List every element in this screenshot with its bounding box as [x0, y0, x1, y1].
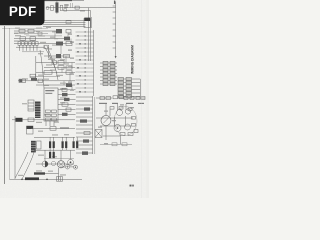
connector block CB2 (hatched): [31, 141, 41, 153]
splice pair column: [100, 61, 117, 85]
capacitor pair C3: [49, 152, 55, 159]
wire: vertical bus B: [90, 11, 92, 61]
wire row 5: [44, 54, 70, 58]
wire row 4: [22, 51, 44, 53]
cap link wires: [45, 137, 77, 161]
lamp L3: [51, 161, 55, 165]
wire: secondary feed: [63, 10, 91, 12]
wire row 3: [14, 37, 70, 41]
wire labels (illegible): [14, 27, 69, 176]
harness trunk wire: [30, 47, 62, 81]
battery B1: [57, 177, 63, 182]
wire bundle under badge: [43, 3, 86, 26]
connector J1: [84, 17, 91, 28]
right splice group: [118, 78, 140, 99]
terminal ladder lower: [76, 97, 93, 155]
U1 drop wires: [46, 121, 54, 126]
page number: [130, 185, 134, 187]
terminal ladder upper: [76, 31, 94, 93]
wire row 18: [34, 136, 75, 138]
gauge G4: [114, 125, 121, 132]
relay K2 (box with X): [95, 130, 102, 138]
aux lamp pair: [60, 165, 78, 170]
wire row 1: [14, 29, 71, 33]
control unit U1: [44, 88, 58, 121]
scan edge shading: [141, 0, 149, 198]
switch pair group A: [96, 97, 112, 105]
svg-text:WIRING DIAGRAM: WIRING DIAGRAM: [130, 45, 134, 74]
gauge cluster wires: [96, 104, 133, 140]
wire row 2: [14, 32, 48, 35]
instrument bezel: [114, 107, 137, 136]
wire row 11: [36, 83, 75, 87]
lamp L2: [68, 159, 74, 165]
interconnect stubs: [55, 31, 72, 90]
lamp L1: [42, 161, 48, 167]
fuse row F1-F6: [14, 42, 72, 46]
wire row 15: [58, 103, 76, 106]
wire: vertical bus A: [88, 8, 90, 61]
terminal bus wire lower: [93, 96, 95, 154]
wire row 19: [34, 149, 75, 151]
connector block CB1 (hatched): [35, 102, 41, 119]
ground label text: [34, 168, 59, 179]
horn wire row: [12, 118, 75, 122]
wire row 14: [58, 98, 76, 101]
wire row 9: [30, 76, 60, 78]
cluster connectors: [110, 107, 136, 127]
capacitor pair C1: [49, 141, 55, 148]
gauge G1: [101, 116, 111, 126]
cluster lower connectors: [103, 130, 138, 137]
wire: left drop: [14, 116, 16, 179]
wire row 6: [36, 61, 75, 64]
frame left border: [4, 26, 6, 184]
flasher relay K1: [27, 126, 34, 134]
wire row 2b: [26, 35, 62, 37]
wire row 12: [58, 88, 76, 91]
wire row 20: [36, 158, 74, 164]
wire row 3c: [14, 40, 36, 42]
gauge G5: [125, 124, 131, 130]
wire row 3b: [16, 45, 49, 48]
wire row 16b: [58, 113, 76, 116]
wire: main feed: [46, 6, 116, 11]
cluster link wires: [110, 109, 130, 144]
node legend (vertical text): [130, 45, 134, 74]
switch pair group B: [112, 96, 124, 104]
lower faint row: [100, 143, 132, 146]
wire row 8: [36, 71, 75, 75]
inner margin line: [9, 28, 11, 180]
switch pair group C: [124, 97, 145, 105]
terminal row marks: [68, 34, 81, 93]
capacitor pair C4: [73, 141, 79, 148]
scan top edge: [42, 0, 84, 2]
battery feed wire: [10, 177, 82, 180]
relay box B2: [28, 100, 34, 111]
ground sweep wires: [15, 151, 34, 180]
gauge G2: [117, 110, 123, 116]
wire row 7: [44, 66, 75, 70]
frame top line: [2, 27, 48, 29]
paper background: [0, 0, 149, 198]
cluster labels: [98, 104, 134, 144]
motor M1: [57, 161, 64, 168]
svg-text:PDF: PDF: [9, 4, 37, 19]
wire row 10: [18, 79, 75, 82]
PDF badge: [0, 0, 45, 25]
wire row 17: [31, 127, 75, 131]
wire: vertical bus C with taps: [113, 1, 117, 59]
gauge G3: [125, 109, 130, 114]
fuse drop wires: [20, 46, 38, 51]
terminal bus wire: [93, 30, 95, 96]
ignition switch cluster: [46, 2, 69, 14]
capacitor pair C2: [62, 141, 68, 148]
harness sweep wires: [40, 46, 58, 88]
wire row 13: [58, 93, 76, 96]
wire row 16: [58, 108, 76, 111]
